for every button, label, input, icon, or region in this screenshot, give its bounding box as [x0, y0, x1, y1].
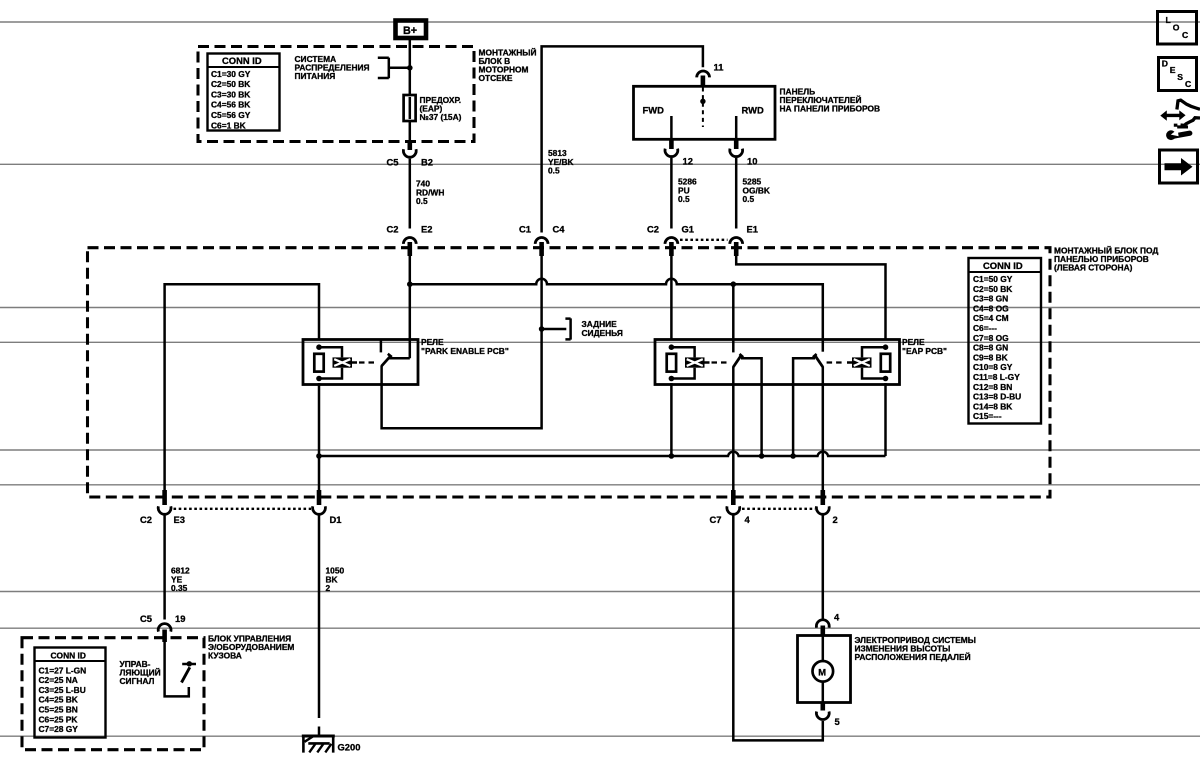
svg-text:2: 2 [326, 583, 331, 593]
svg-text:C6=---: C6=--- [973, 323, 997, 333]
svg-text:0.5: 0.5 [548, 166, 560, 176]
svg-text:C5: C5 [140, 613, 152, 624]
svg-text:C1=27 L-GN: C1=27 L-GN [39, 665, 87, 675]
svg-text:11: 11 [714, 62, 724, 73]
svg-text:L: L [1166, 15, 1171, 25]
svg-text:C7=28 GY: C7=28 GY [39, 724, 79, 734]
svg-text:E: E [1170, 65, 1176, 75]
svg-text:C13=8 D-BU: C13=8 D-BU [973, 392, 1021, 402]
svg-text:C6=1 BK: C6=1 BK [211, 120, 246, 130]
svg-text:10: 10 [747, 156, 757, 167]
svg-text:C10=8 GY: C10=8 GY [973, 362, 1013, 372]
svg-text:FWD: FWD [643, 105, 665, 116]
svg-text:"PARK ENABLE PCB": "PARK ENABLE PCB" [421, 346, 509, 356]
svg-text:4: 4 [834, 612, 840, 623]
svg-text:0.5: 0.5 [678, 194, 690, 204]
svg-text:C2=25 NA: C2=25 NA [39, 675, 78, 685]
svg-text:D1: D1 [330, 514, 342, 525]
svg-text:C3=25 L-BU: C3=25 L-BU [39, 685, 86, 695]
svg-text:ПИТАНИЯ: ПИТАНИЯ [295, 71, 336, 81]
svg-text:0.5: 0.5 [743, 194, 755, 204]
svg-text:РАСПОЛОЖЕНИЯ ПЕДАЛЕЙ: РАСПОЛОЖЕНИЯ ПЕДАЛЕЙ [855, 651, 971, 662]
svg-text:C6=25 PK: C6=25 PK [39, 714, 78, 724]
svg-text:СИГНАЛ: СИГНАЛ [120, 676, 155, 686]
svg-text:C3=30 BK: C3=30 BK [211, 89, 250, 99]
svg-text:E2: E2 [421, 224, 432, 235]
svg-text:C3=8 GN: C3=8 GN [973, 294, 1008, 304]
svg-text:C5: C5 [387, 157, 399, 168]
svg-text:C15=---: C15=--- [973, 411, 1002, 421]
svg-text:C4=56 BK: C4=56 BK [211, 100, 250, 110]
svg-text:C4=25 BK: C4=25 BK [39, 695, 78, 705]
svg-text:RWD: RWD [742, 105, 764, 116]
svg-text:"EAP PCB": "EAP PCB" [902, 346, 947, 356]
svg-text:G1: G1 [682, 224, 695, 235]
svg-text:0.35: 0.35 [171, 583, 188, 593]
svg-text:C4=8 OG: C4=8 OG [973, 303, 1009, 313]
svg-text:G200: G200 [338, 742, 361, 753]
svg-text:C: C [1185, 79, 1191, 89]
svg-text:КУЗОВА: КУЗОВА [208, 651, 242, 661]
svg-text:E1: E1 [747, 224, 758, 235]
svg-text:D: D [1162, 59, 1168, 69]
svg-text:CONN ID: CONN ID [222, 55, 262, 66]
svg-text:C7=8 OG: C7=8 OG [973, 333, 1009, 343]
svg-text:B2: B2 [421, 157, 433, 168]
svg-text:12: 12 [683, 156, 693, 167]
svg-text:E3: E3 [174, 514, 185, 525]
svg-text:C1=50 GY: C1=50 GY [973, 274, 1013, 284]
svg-text:CONN ID: CONN ID [51, 651, 86, 661]
svg-text:C14=8 BK: C14=8 BK [973, 401, 1012, 411]
svg-text:(ЛЕВАЯ СТОРОНА): (ЛЕВАЯ СТОРОНА) [1054, 263, 1133, 273]
svg-text:C12=8 BN: C12=8 BN [973, 382, 1012, 392]
svg-text:C2: C2 [387, 224, 399, 235]
svg-text:M: M [818, 666, 826, 677]
svg-text:5: 5 [835, 716, 840, 727]
svg-text:0.5: 0.5 [416, 196, 428, 206]
svg-text:C2: C2 [647, 224, 659, 235]
svg-text:№37 (15А): №37 (15А) [420, 112, 462, 122]
svg-text:ОТСЕКЕ: ОТСЕКЕ [479, 73, 513, 83]
svg-text:C4: C4 [553, 224, 566, 235]
svg-text:C2=50 BK: C2=50 BK [211, 79, 250, 89]
svg-text:O: O [1173, 23, 1180, 33]
svg-text:2: 2 [833, 514, 838, 525]
svg-text:C7: C7 [710, 514, 722, 525]
svg-text:C1: C1 [519, 224, 531, 235]
svg-text:19: 19 [175, 613, 185, 624]
svg-text:СИДЕНЬЯ: СИДЕНЬЯ [582, 328, 623, 338]
svg-text:C11=8 L-GY: C11=8 L-GY [973, 372, 1020, 382]
svg-text:4: 4 [745, 514, 751, 525]
svg-text:S: S [1177, 72, 1183, 82]
svg-text:CONN ID: CONN ID [983, 260, 1023, 271]
svg-text:C9=8 BK: C9=8 BK [973, 352, 1008, 362]
svg-text:C2: C2 [140, 514, 152, 525]
svg-text:C8=8 GN: C8=8 GN [973, 343, 1008, 353]
svg-text:НА ПАНЕЛИ ПРИБОРОВ: НА ПАНЕЛИ ПРИБОРОВ [780, 104, 881, 114]
svg-text:B+: B+ [403, 25, 417, 37]
svg-text:C5=25 BN: C5=25 BN [39, 705, 78, 715]
svg-text:C: C [1182, 30, 1188, 40]
svg-text:C2=50 BK: C2=50 BK [973, 284, 1012, 294]
svg-text:C5=56 GY: C5=56 GY [211, 110, 251, 120]
svg-text:C5=4 CM: C5=4 CM [973, 313, 1009, 323]
svg-text:C1=30 GY: C1=30 GY [211, 69, 251, 79]
